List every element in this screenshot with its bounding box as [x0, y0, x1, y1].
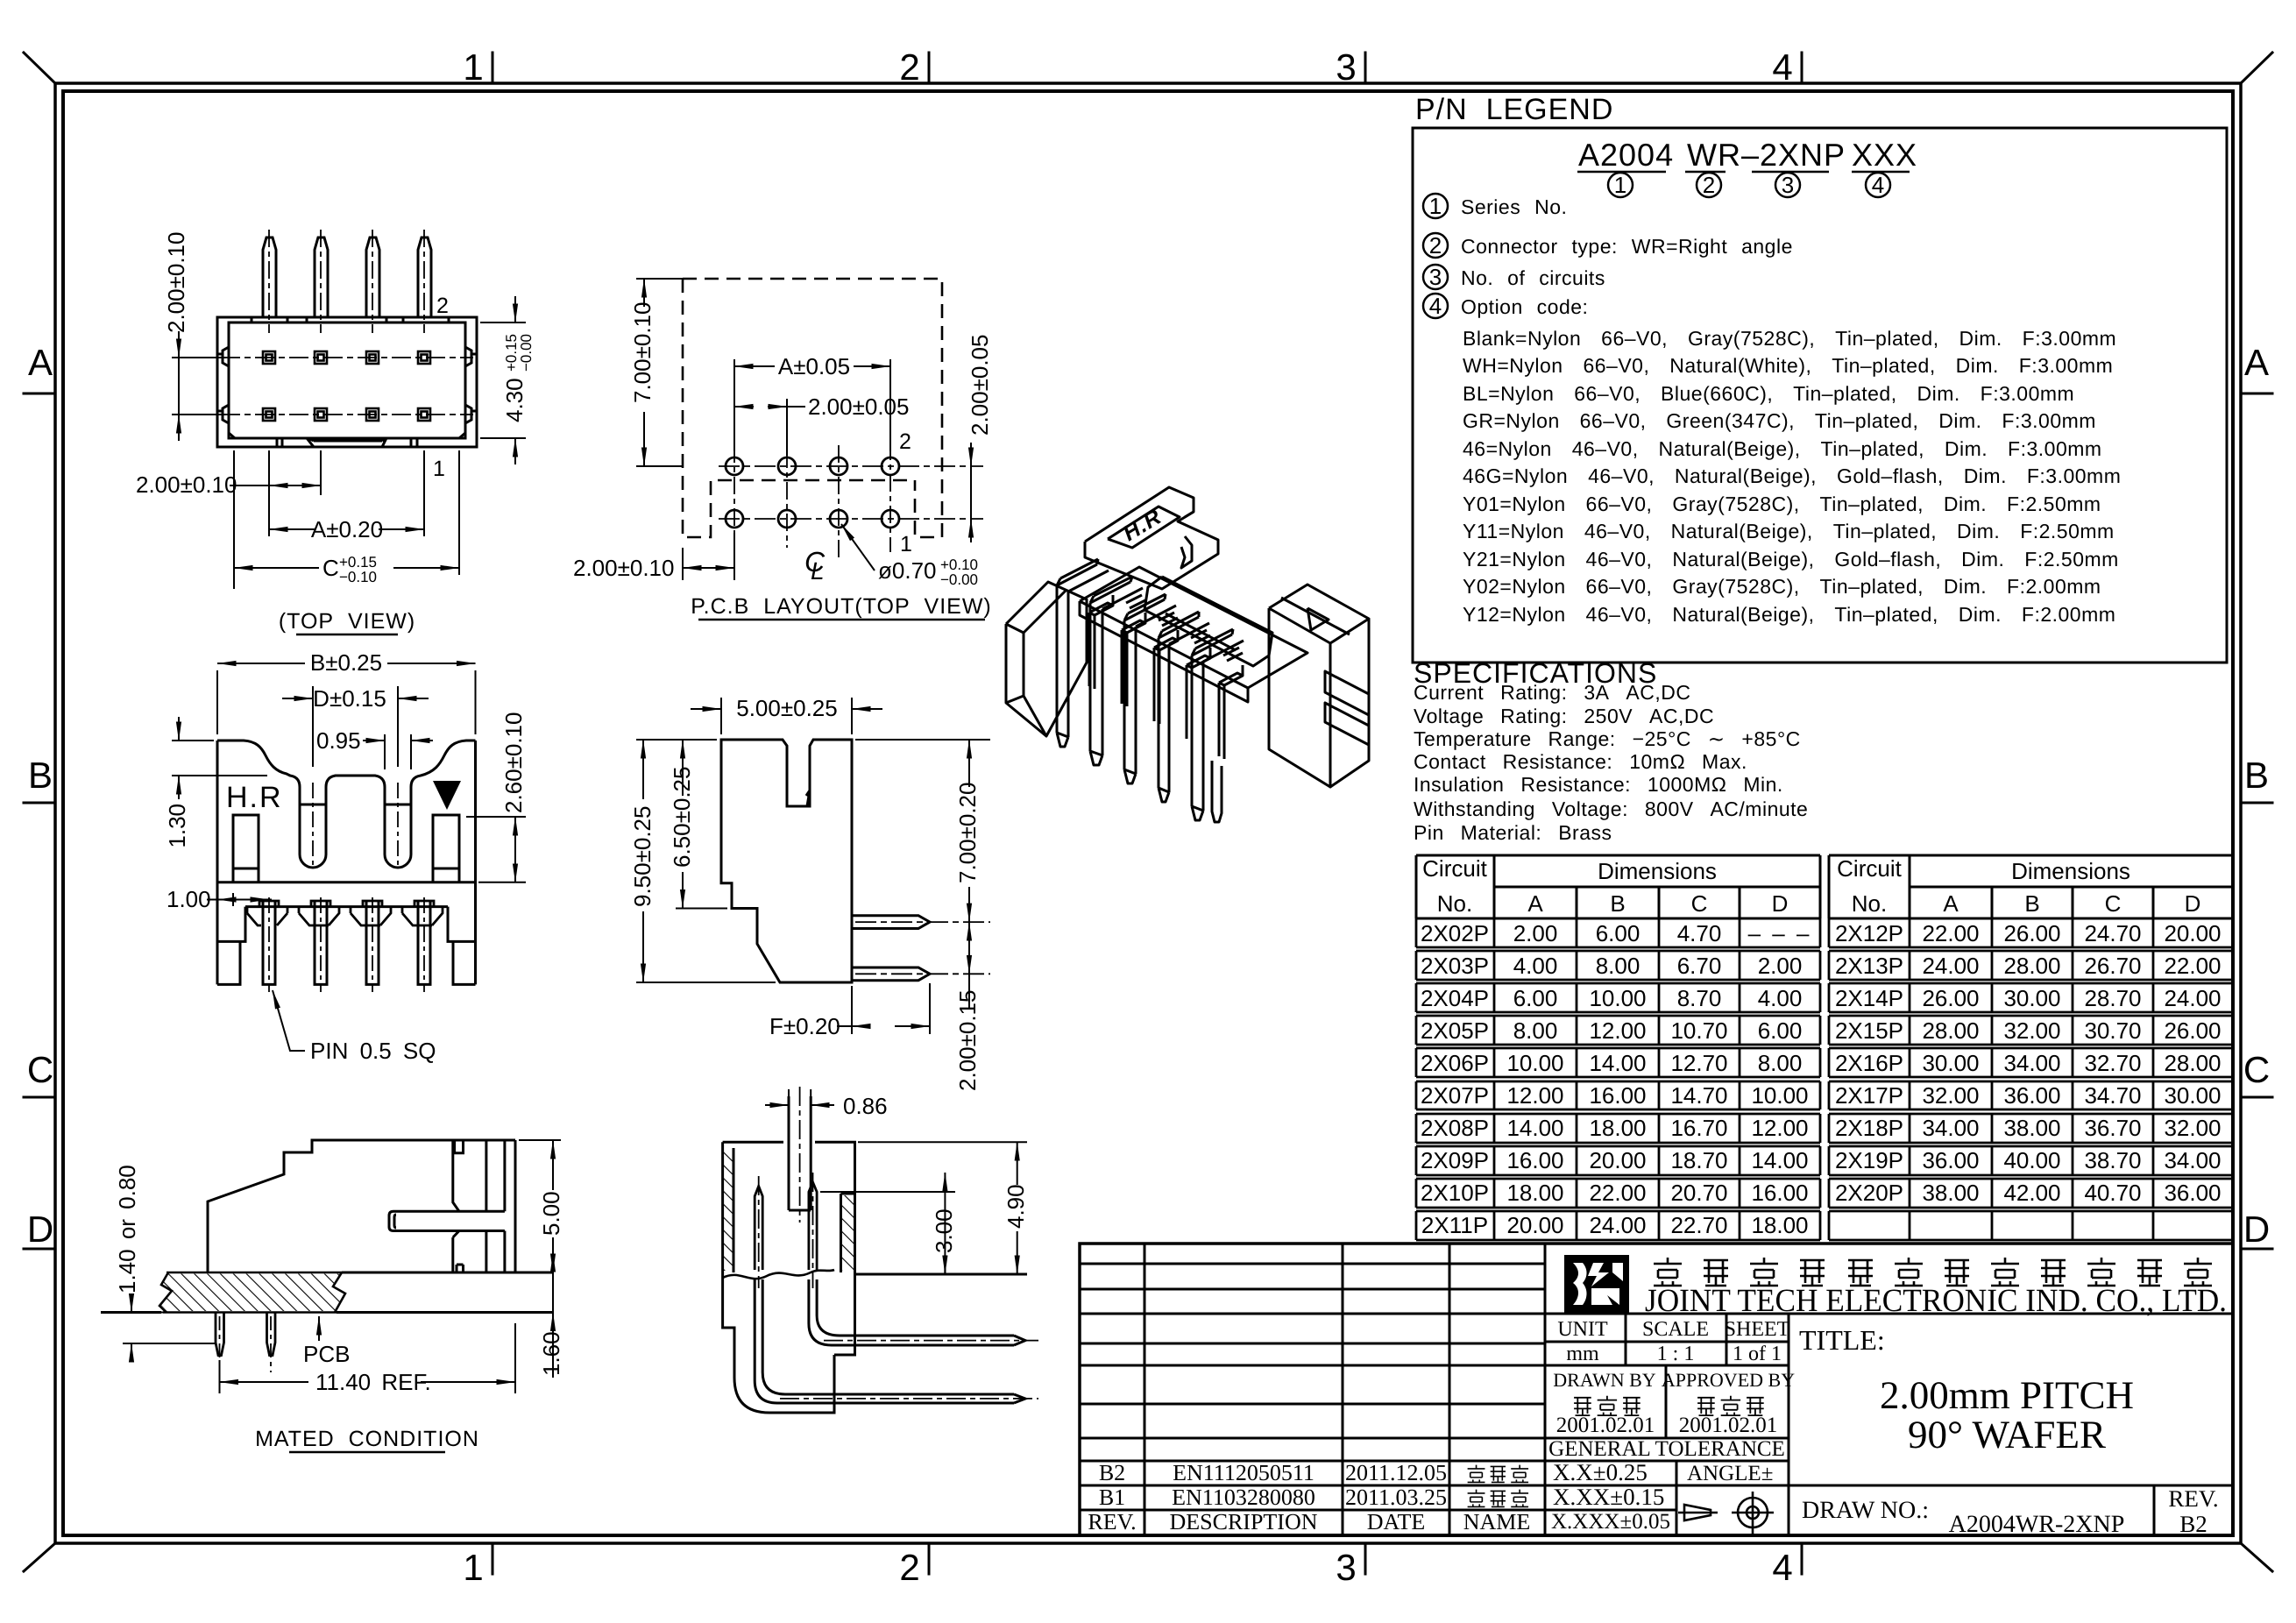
hole centerlines vertical: [734, 419, 890, 561]
svg-text:0.95: 0.95: [316, 727, 361, 754]
dim D±0.15: [282, 686, 429, 767]
dimension table left: grid: [1416, 855, 1820, 918]
company logo: [1564, 1255, 1629, 1313]
svg-text:DRAW NO.:: DRAW NO.:: [1802, 1497, 1929, 1524]
svg-text:10.00: 10.00: [1751, 1082, 1808, 1109]
svg-text:2.00±0.05: 2.00±0.05: [808, 393, 909, 420]
svg-text:2: 2: [436, 294, 449, 318]
svg-text:2X17P: 2X17P: [1835, 1082, 1903, 1109]
svg-text:B: B: [2024, 890, 2039, 917]
svg-text:D: D: [2243, 1208, 2270, 1250]
svg-text:12.70: 12.70: [1670, 1050, 1727, 1076]
top band ticks: [252, 317, 449, 322]
svg-text:F±0.20: F±0.20: [769, 1013, 840, 1039]
body outline: [723, 1096, 855, 1278]
iso housing deck: [1080, 567, 1307, 688]
PCB surface lines: [101, 1272, 553, 1313]
svg-text:6.50±0.25: 6.50±0.25: [669, 767, 695, 868]
svg-text:WH=Nylon 66–V0, Natural(White): WH=Nylon 66–V0, Natural(White), Tin–plat…: [1463, 354, 2113, 377]
svg-text:28.00: 28.00: [2164, 1050, 2221, 1076]
svg-text:Circuit: Circuit: [1837, 855, 1902, 882]
pin centerlines vertical: [269, 230, 424, 333]
dim 2.00±0.15: [968, 922, 970, 1010]
svg-text:38.00: 38.00: [1922, 1180, 1979, 1206]
svg-text:30.70: 30.70: [2084, 1017, 2141, 1044]
pins (4): [263, 237, 431, 317]
svg-text:6.00: 6.00: [1596, 920, 1641, 946]
dim 0.86: [765, 1089, 834, 1105]
dim A±0.05: [734, 359, 890, 451]
latch flag in notch: [806, 790, 810, 806]
svg-text:16.70: 16.70: [1670, 1115, 1727, 1141]
centerline symbol: [804, 546, 826, 585]
svg-text:2: 2: [899, 429, 911, 454]
PCB hatched: [159, 1272, 346, 1313]
svg-text:7.00±0.20: 7.00±0.20: [954, 783, 981, 883]
svg-text:3.00: 3.00: [931, 1208, 957, 1253]
svg-text:4.30: 4.30: [501, 378, 528, 422]
svg-text:38.70: 38.70: [2084, 1147, 2141, 1173]
svg-text:REV.: REV.: [1088, 1509, 1136, 1534]
revision table verticals: [1144, 1244, 1545, 1535]
svg-text:Y12=Nylon 46–V0, Natural(Beige: Y12=Nylon 46–V0, Natural(Beige), Tin–pla…: [1463, 603, 2115, 626]
zone numbers bottom: [463, 1547, 1792, 1588]
svg-text:Insulation Resistance: 1000MΩ: Insulation Resistance: 1000MΩ Min.: [1414, 773, 1783, 796]
svg-text:D: D: [2185, 890, 2201, 917]
svg-text:36.00: 36.00: [2003, 1082, 2060, 1109]
svg-text:A: A: [2244, 342, 2269, 383]
svg-text:2X07P: 2X07P: [1421, 1082, 1489, 1109]
svg-text:D: D: [1772, 890, 1789, 917]
iso pins: [1057, 564, 1097, 585]
svg-text:−0.00: −0.00: [940, 571, 978, 588]
svg-text:DRAWN BY: DRAWN BY: [1553, 1369, 1656, 1391]
svg-text:Y01=Nylon 66–V0, Gray(7528C),: Y01=Nylon 66–V0, Gray(7528C), Tin–plated…: [1463, 493, 2101, 515]
lower body + bent pins: [723, 1274, 1025, 1413]
contact pads 2x4: [263, 351, 430, 421]
dim 4.30 right: [480, 296, 526, 464]
svg-text:Y02=Nylon 66–V0, Gray(7528C),: Y02=Nylon 66–V0, Gray(7528C), Tin–plated…: [1463, 575, 2101, 598]
solder pins side: [852, 916, 930, 981]
plug housing outline: [208, 1140, 515, 1272]
dim 9.50±0.25: [636, 740, 776, 982]
svg-text:40.00: 40.00: [2003, 1147, 2060, 1173]
svg-text:2: 2: [1703, 172, 1715, 198]
svg-text:0.86: 0.86: [843, 1093, 888, 1119]
svg-text:2011.03.25: 2011.03.25: [1345, 1485, 1447, 1510]
svg-text:4: 4: [1872, 172, 1884, 198]
svg-text:16.00: 16.00: [1506, 1147, 1563, 1173]
top notch: [455, 1140, 464, 1272]
pin centerlines: [269, 783, 424, 992]
pcb surface line: [855, 1273, 1028, 1276]
table data rows: [1416, 918, 2233, 1240]
svg-text:4.70: 4.70: [1677, 920, 1722, 946]
svg-text:24.00: 24.00: [1922, 953, 1979, 979]
svg-text:90° WAFER: 90° WAFER: [1908, 1413, 2106, 1456]
title block outer: [1080, 1244, 2233, 1535]
svg-text:10.70: 10.70: [1670, 1017, 1727, 1044]
svg-text:EN1103280080: EN1103280080: [1172, 1485, 1315, 1510]
svg-text:30.00: 30.00: [1922, 1050, 1979, 1076]
svg-text:B2: B2: [2179, 1511, 2207, 1537]
dim 7.00±0.10: [636, 279, 683, 466]
svg-text:32.00: 32.00: [1922, 1082, 1979, 1109]
svg-text:SCALE: SCALE: [1642, 1318, 1709, 1341]
svg-text:2: 2: [1429, 232, 1442, 259]
legend items: [1429, 193, 1442, 319]
svg-text:36.00: 36.00: [2164, 1180, 2221, 1206]
svg-text:7.00±0.10: 7.00±0.10: [629, 302, 655, 403]
svg-text:2X20P: 2X20P: [1835, 1180, 1903, 1206]
svg-text:30.00: 30.00: [2164, 1082, 2221, 1109]
teeth band: [245, 905, 448, 908]
svg-text:Circuit: Circuit: [1422, 855, 1487, 882]
svg-text:A: A: [1943, 890, 1959, 917]
dim 2.00±0.10 cols (bottom): [230, 450, 321, 536]
option code list: [1463, 327, 2121, 626]
svg-text:Current Rating: 3A AC,DC: Current Rating: 3A AC,DC: [1414, 681, 1690, 704]
svg-text:ANGLE±: ANGLE±: [1687, 1462, 1773, 1485]
left ruler ticks: [24, 393, 55, 1249]
svg-text:2X15P: 2X15P: [1835, 1017, 1903, 1044]
svg-text:32.70: 32.70: [2084, 1050, 2141, 1076]
top ruler ticks: [493, 53, 1802, 83]
svg-text:2.00: 2.00: [1513, 920, 1558, 946]
svg-text:22.00: 22.00: [1922, 920, 1979, 946]
svg-text:8.00: 8.00: [1513, 1017, 1558, 1044]
dim 1.40 or 0.80: [123, 1294, 215, 1361]
svg-text:24.70: 24.70: [2084, 920, 2141, 946]
svg-text:A: A: [28, 342, 53, 383]
svg-text:EN1112050511: EN1112050511: [1173, 1460, 1315, 1485]
svg-text:2: 2: [899, 1547, 919, 1588]
dim 7.00±0.20: [855, 740, 990, 922]
svg-text:ø0.70: ø0.70: [878, 557, 937, 584]
svg-text:1: 1: [463, 46, 483, 88]
svg-text:5.00: 5.00: [538, 1191, 564, 1236]
projection symbols: [1678, 1492, 1774, 1534]
iso back pin bottom right: [1212, 761, 1222, 822]
svg-text:46G=Nylon 46–V0, Natural(Beige: 46G=Nylon 46–V0, Natural(Beige), Gold–fl…: [1463, 464, 2121, 487]
svg-text:1.40 or 0.80: 1.40 or 0.80: [114, 1165, 140, 1293]
svg-text:PCB: PCB: [303, 1341, 350, 1367]
svg-text:TITLE:: TITLE:: [1799, 1324, 1885, 1356]
svg-text:2X05P: 2X05P: [1421, 1017, 1489, 1044]
svg-text:Pin Material: Brass: Pin Material: Brass: [1414, 821, 1612, 844]
svg-text:8.70: 8.70: [1677, 985, 1722, 1011]
svg-text:1: 1: [900, 532, 912, 556]
svg-text:40.70: 40.70: [2084, 1180, 2141, 1206]
svg-text:2X09P: 2X09P: [1421, 1147, 1489, 1173]
svg-text:30.00: 30.00: [2003, 985, 2060, 1011]
dashed footprint outline: [683, 279, 942, 537]
svg-text:C: C: [2105, 890, 2122, 917]
table headers: [1422, 855, 2200, 917]
svg-text:A2004: A2004: [1578, 137, 1674, 173]
svg-text:SHEET: SHEET: [1725, 1318, 1790, 1341]
bottom ruler ticks: [493, 1543, 1802, 1574]
svg-text:3: 3: [1336, 46, 1356, 88]
svg-text:No. of circuits: No. of circuits: [1461, 266, 1605, 289]
inner wall lines: [733, 1148, 855, 1272]
svg-text:X.X±0.25: X.X±0.25: [1553, 1459, 1648, 1485]
iso right end block: [1269, 585, 1369, 643]
svg-text:Y11=Nylon 46–V0, Natural(Beige: Y11=Nylon 46–V0, Natural(Beige), Tin–pla…: [1463, 520, 2115, 542]
right ruler ticks: [2241, 393, 2272, 1249]
svg-text:38.00: 38.00: [2003, 1115, 2060, 1141]
svg-text:36.00: 36.00: [1922, 1147, 1979, 1173]
center block lines: [1545, 1314, 2233, 1510]
mid divider: [217, 881, 476, 883]
revision table horizontals: [1080, 1264, 1545, 1510]
svg-text:C: C: [1691, 890, 1708, 917]
svg-text:H.R: H.R: [226, 781, 283, 814]
svg-text:X.XX±0.15: X.XX±0.15: [1553, 1484, 1664, 1510]
svg-text:46=Nylon 46–V0, Natural(Beige): 46=Nylon 46–V0, Natural(Beige), Tin–plat…: [1463, 437, 2102, 460]
svg-text:Y21=Nylon 46–V0, Natural(Beige: Y21=Nylon 46–V0, Natural(Beige), Gold–fl…: [1463, 548, 2119, 571]
svg-text:C: C: [2243, 1049, 2270, 1090]
svg-text:26.00: 26.00: [2003, 920, 2060, 946]
iso dividers: [1089, 603, 1113, 615]
svg-text:C: C: [27, 1049, 53, 1090]
svg-text:3: 3: [1429, 264, 1442, 290]
svg-text:Voltage Rating: 250V AC,DC: Voltage Rating: 250V AC,DC: [1414, 705, 1714, 727]
corner diagonal bottom-left: [24, 1543, 55, 1571]
svg-text:2.60±0.10: 2.60±0.10: [500, 712, 527, 813]
svg-text:GENERAL TOLERANCE: GENERAL TOLERANCE: [1548, 1437, 1785, 1461]
slot walls: [789, 1096, 811, 1210]
svg-text:– – –: – – –: [1748, 920, 1812, 946]
dim 4.90: [858, 1142, 1027, 1274]
svg-text:9.50±0.25: 9.50±0.25: [629, 806, 655, 907]
svg-text:1.00: 1.00: [167, 886, 211, 912]
svg-text:12.00: 12.00: [1506, 1082, 1563, 1109]
svg-text:2X04P: 2X04P: [1421, 985, 1489, 1011]
svg-text:3: 3: [1336, 1547, 1356, 1588]
svg-text:Dimensions: Dimensions: [1598, 858, 1717, 884]
svg-text:D±0.15: D±0.15: [313, 685, 386, 712]
reviser names pseudo cjk: [1468, 1465, 1528, 1483]
pad row centerlines: [221, 358, 473, 415]
part number code: [1578, 137, 1917, 173]
svg-text:MATED CONDITION: MATED CONDITION: [255, 1427, 479, 1451]
svg-text:−0.00: −0.00: [518, 334, 535, 372]
svg-text:2001.02.01: 2001.02.01: [1679, 1414, 1778, 1437]
dim 0.95: [363, 734, 433, 769]
svg-text:B: B: [2244, 755, 2269, 796]
solder pins below pcb: [216, 1313, 275, 1356]
left wall notches: [217, 347, 229, 423]
wafer walls: [453, 1140, 505, 1211]
svg-text:2X02P: 2X02P: [1421, 920, 1489, 946]
svg-text:1 of 1: 1 of 1: [1733, 1343, 1782, 1365]
svg-text:36.70: 36.70: [2084, 1115, 2141, 1141]
dim 2.00±0.05: [734, 399, 805, 456]
svg-text:Contact Resistance: 10mΩ Max.: Contact Resistance: 10mΩ Max.: [1414, 750, 1747, 773]
svg-text:2X06P: 2X06P: [1421, 1050, 1489, 1076]
svg-text:B1: B1: [1099, 1485, 1125, 1510]
svg-text:Connector type: WR=Right angle: Connector type: WR=Right angle: [1461, 235, 1793, 258]
svg-text:B: B: [28, 755, 53, 796]
svg-text:22.00: 22.00: [1589, 1180, 1646, 1206]
corner diagonal top-right: [2241, 53, 2272, 83]
svg-text:2: 2: [899, 46, 919, 88]
svg-text:BL=Nylon 66–V0, Blue(660C), Ti: BL=Nylon 66–V0, Blue(660C), Tin–plated, …: [1463, 382, 2074, 405]
svg-text:WR–2XNP: WR–2XNP: [1687, 137, 1846, 173]
svg-text:10.00: 10.00: [1589, 985, 1646, 1011]
svg-text:DESCRIPTION: DESCRIPTION: [1169, 1509, 1317, 1534]
svg-text:34.70: 34.70: [2084, 1082, 2141, 1109]
svg-text:4: 4: [1772, 1547, 1792, 1588]
corner diagonal top-left: [24, 53, 55, 83]
dim 2.00±0.05 right: [970, 443, 972, 542]
polarity triangle: [433, 781, 461, 810]
svg-text:JOINT TECH ELECTRONIC IND. CO.: JOINT TECH ELECTRONIC IND. CO., LTD.: [1645, 1283, 2227, 1319]
svg-text:20.00: 20.00: [2164, 920, 2221, 946]
svg-text:2X08P: 2X08P: [1421, 1115, 1489, 1141]
svg-text:8.00: 8.00: [1596, 953, 1641, 979]
svg-text:D: D: [27, 1208, 53, 1250]
svg-text:20.70: 20.70: [1670, 1180, 1727, 1206]
svg-text:B±0.25: B±0.25: [310, 649, 382, 676]
svg-text:2X13P: 2X13P: [1835, 953, 1903, 979]
svg-text:8.00: 8.00: [1758, 1050, 1803, 1076]
pin centerlines: [855, 922, 990, 974]
circled digits under code: [1614, 172, 1884, 198]
svg-text:2X19P: 2X19P: [1835, 1147, 1903, 1173]
bottom band boxes: [277, 438, 417, 447]
dim 2.60±0.10: [466, 817, 526, 882]
svg-text:2.00mm PITCH: 2.00mm PITCH: [1880, 1373, 2134, 1417]
svg-text:32.00: 32.00: [2164, 1115, 2221, 1141]
dim 6.50±0.25: [676, 740, 727, 909]
dim B±0.25: [217, 663, 476, 734]
svg-text:4: 4: [1429, 293, 1442, 319]
svg-text:20.00: 20.00: [1506, 1212, 1563, 1238]
svg-text:B2: B2: [1099, 1460, 1125, 1485]
svg-text:4.00: 4.00: [1758, 985, 1803, 1011]
svg-text:GR=Nylon 66–V0, Green(347C), T: GR=Nylon 66–V0, Green(347C), Tin–plated,…: [1463, 409, 2096, 432]
specifications lines: [1414, 681, 1808, 844]
housing upper outline: [217, 741, 476, 984]
hole diameter leader: [841, 524, 875, 571]
svg-text:NAME: NAME: [1463, 1509, 1531, 1534]
svg-text:1: 1: [1614, 172, 1626, 198]
svg-text:18.00: 18.00: [1506, 1180, 1563, 1206]
svg-text:26.00: 26.00: [1922, 985, 1979, 1011]
bottom corner chamfers: [229, 433, 465, 438]
pin pockets: [259, 901, 434, 907]
svg-text:L: L: [811, 557, 825, 585]
svg-text:A±0.20: A±0.20: [311, 516, 383, 542]
bottom center key: [307, 438, 386, 447]
svg-text:28.70: 28.70: [2084, 985, 2141, 1011]
svg-text:2X18P: 2X18P: [1835, 1115, 1903, 1141]
svg-text:26.70: 26.70: [2084, 953, 2141, 979]
svg-text:Dimensions: Dimensions: [2011, 858, 2130, 884]
svg-text:DATE: DATE: [1367, 1509, 1425, 1534]
centerlines: [759, 1087, 1038, 1399]
iso cover plate: [1144, 577, 1272, 666]
svg-text:34.00: 34.00: [1922, 1115, 1979, 1141]
svg-text:22.70: 22.70: [1670, 1212, 1727, 1238]
dim C tol: [234, 450, 459, 589]
connector body outer: [217, 317, 477, 447]
svg-text:2X10P: 2X10P: [1421, 1180, 1489, 1206]
svg-text:Temperature Range: −25°C ∼ +85: Temperature Range: −25°C ∼ +85°C: [1414, 727, 1801, 750]
tolerance column: [1553, 1459, 1664, 1510]
teeth profile: [247, 901, 443, 925]
svg-text:10.00: 10.00: [1506, 1050, 1563, 1076]
svg-text:2.00±0.10: 2.00±0.10: [136, 471, 237, 498]
svg-text:34.00: 34.00: [2164, 1147, 2221, 1173]
svg-text:18.70: 18.70: [1670, 1147, 1727, 1173]
svg-text:1: 1: [1429, 193, 1442, 219]
PIN 0.5 SQ leader: [273, 990, 305, 1051]
svg-text:Withstanding Voltage: 800V AC/: Withstanding Voltage: 800V AC/minute: [1414, 797, 1808, 820]
inner pins: [755, 1182, 817, 1270]
connector body inner wall: [229, 322, 465, 438]
svg-text:14.00: 14.00: [1589, 1050, 1646, 1076]
svg-text:4.90: 4.90: [1003, 1184, 1029, 1229]
svg-text:42.00: 42.00: [2003, 1180, 2060, 1206]
svg-text:2X16P: 2X16P: [1835, 1050, 1903, 1076]
svg-text:18.00: 18.00: [1751, 1212, 1808, 1238]
svg-text:2X14P: 2X14P: [1835, 985, 1903, 1011]
svg-text:A: A: [1527, 890, 1543, 917]
svg-text:4: 4: [1772, 46, 1792, 88]
svg-text:12.00: 12.00: [1751, 1115, 1808, 1141]
svg-text:No.: No.: [1437, 890, 1472, 917]
dim 11.40 REF: [220, 1323, 516, 1393]
iso back row pins: [1126, 595, 1142, 603]
svg-text:A±0.05: A±0.05: [778, 353, 850, 379]
svg-text:Blank=Nylon 66–V0, Gray(7528C): Blank=Nylon 66–V0, Gray(7528C), Tin–plat…: [1463, 327, 2116, 350]
svg-text:16.00: 16.00: [1751, 1180, 1808, 1206]
svg-text:2X12P: 2X12P: [1835, 920, 1903, 946]
dimension table right: grid: [1829, 855, 2233, 918]
svg-text:4.00: 4.00: [1513, 953, 1558, 979]
svg-text:Series No.: Series No.: [1461, 195, 1567, 218]
contact windows: [233, 815, 259, 868]
svg-text:3: 3: [1782, 172, 1794, 198]
svg-text:(TOP VIEW): (TOP VIEW): [279, 609, 415, 634]
svg-text:1 : 1: 1 : 1: [1657, 1343, 1695, 1365]
dim 3.00: [820, 1173, 955, 1274]
svg-text:18.00: 18.00: [1589, 1115, 1646, 1141]
dim 2.00±0.10 rows (left vertical): [172, 331, 226, 441]
svg-text:34.00: 34.00: [2003, 1050, 2060, 1076]
svg-text:mm: mm: [1566, 1343, 1599, 1365]
bottom outer: [217, 907, 476, 985]
svg-text:1.30: 1.30: [164, 804, 190, 848]
svg-text:1: 1: [463, 1547, 483, 1588]
corner diagonal bottom-right: [2241, 1543, 2272, 1571]
svg-text:P/N LEGEND: P/N LEGEND: [1415, 93, 1613, 126]
svg-text:2.00±0.10: 2.00±0.10: [573, 555, 674, 581]
svg-text:XXX: XXX: [1852, 137, 1917, 173]
slot seats: [300, 804, 411, 806]
svg-text:C: C: [322, 555, 339, 581]
svg-text:14.00: 14.00: [1506, 1115, 1563, 1141]
svg-text:14.00: 14.00: [1751, 1147, 1808, 1173]
zone letters right: [2243, 342, 2270, 1250]
svg-text:2.00±0.10: 2.00±0.10: [163, 232, 189, 333]
dim 5.00: [519, 1140, 561, 1272]
svg-text:A2004WR-2XNP: A2004WR-2XNP: [1949, 1511, 2125, 1538]
hole centerlines horizontal: [719, 466, 983, 519]
